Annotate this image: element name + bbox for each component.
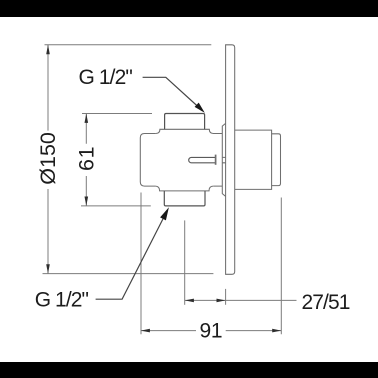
leader arrowhead top — [195, 103, 205, 113]
extension line body left face (91) — [140, 193, 142, 335]
svg-text:G 1/2": G 1/2" — [79, 66, 133, 89]
end cap — [272, 134, 281, 186]
arrowhead 27/51 left — [185, 299, 194, 303]
extension line plate top (O150) — [45, 44, 212, 46]
arrowhead 91 left — [141, 329, 150, 333]
svg-text:91: 91 — [200, 320, 223, 343]
extension line inlet top (61) — [82, 113, 152, 115]
spindle end bar — [215, 155, 217, 165]
top letterbox bar — [0, 0, 378, 17]
extension line plate bottom (O150) — [43, 273, 214, 275]
dimension line 27/51 — [185, 299, 297, 301]
leader line top G 1/2 — [143, 77, 203, 110]
extension line outlet bottom (61) — [81, 205, 151, 207]
svg-text:27/51: 27/51 — [302, 291, 350, 314]
bottom letterbox bar — [0, 362, 378, 378]
leader line bottom G 1/2 — [96, 211, 167, 299]
arrowhead 91 right — [272, 329, 281, 333]
arrowhead 27/51 right — [217, 299, 226, 303]
valve body outline — [140, 134, 222, 187]
arrowhead 61 top — [85, 114, 89, 123]
inlet pipe rectangle (top) — [165, 114, 205, 130]
spindle — [189, 157, 216, 162]
centerline pipe axis extension — [184, 220, 186, 304]
dimension line 91 — [141, 330, 281, 332]
outlet pipe rectangle (bottom) — [164, 191, 205, 206]
svg-text:61: 61 — [75, 146, 99, 171]
wall plate (escutcheon, side view) — [226, 45, 235, 274]
arrowhead 61 bottom — [85, 197, 89, 206]
arrowhead O150 top — [46, 45, 50, 54]
spindle shaft through flange — [222, 157, 225, 162]
svg-text:Ø150: Ø150 — [36, 132, 60, 185]
dimension line O150 — [47, 45, 49, 274]
outlet boss G 1/2 (bottom) — [155, 186, 213, 191]
arrowhead O150 bottom — [46, 264, 50, 273]
dimension line 61 — [85, 114, 87, 206]
extension line cap end (91) — [280, 198, 282, 335]
inlet boss G 1/2 (top) — [156, 129, 214, 133]
leader arrowhead bottom — [160, 207, 169, 220]
svg-text:G 1/2": G 1/2" — [35, 289, 89, 312]
extension line plate face (27/51) — [225, 289, 227, 305]
mounting flange strip left edge — [222, 123, 225, 196]
cartridge housing box (right of plate) — [235, 130, 272, 189]
